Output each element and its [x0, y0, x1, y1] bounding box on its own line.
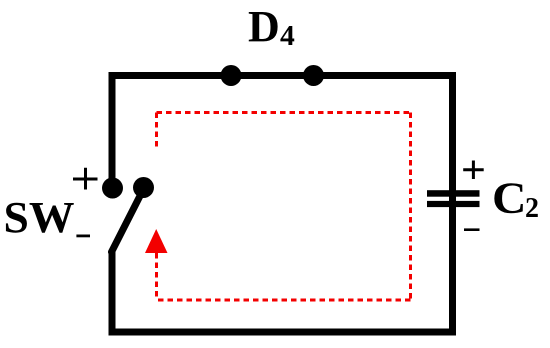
svg-text:D: D — [248, 2, 280, 51]
wire: red dashed current loop, top edge — [157, 111, 411, 114]
label - (switch polarity minus, subscript) — [76, 235, 90, 238]
switch SW: lever arm — [112, 189, 144, 252]
capacitor C2: bottom plate — [427, 201, 480, 207]
arrowhead: red current direction arrow pointing up — [145, 229, 168, 253]
label + (capacitor polarity plus) — [463, 161, 484, 180]
node: left junction dot of D4 on top wire — [221, 65, 242, 86]
node: right junction dot of D4 on top wire — [303, 65, 324, 86]
svg-text:C: C — [492, 174, 527, 223]
switch SW: pole dot — [102, 178, 123, 199]
label + (switch polarity plus) — [73, 168, 98, 190]
svg-text:4: 4 — [280, 21, 295, 52]
switch SW: throw dot — [133, 177, 154, 198]
label - (capacitor polarity minus) — [464, 228, 480, 231]
wire: red dashed current loop, bottom edge — [157, 299, 411, 302]
capacitor C2: top plate — [427, 190, 480, 197]
wire: red dashed current loop, right edge — [409, 113, 412, 301]
wire: red dashed current loop, left edge lower segment — [155, 253, 158, 300]
wire: red dashed current loop, left edge upper segment — [155, 113, 158, 148]
svg-text:2: 2 — [525, 193, 539, 224]
wire: outer circuit loop (top, right with capacitor gap, bottom, left with switch gap) — [112, 76, 453, 333]
svg-text:SW: SW — [4, 193, 75, 242]
